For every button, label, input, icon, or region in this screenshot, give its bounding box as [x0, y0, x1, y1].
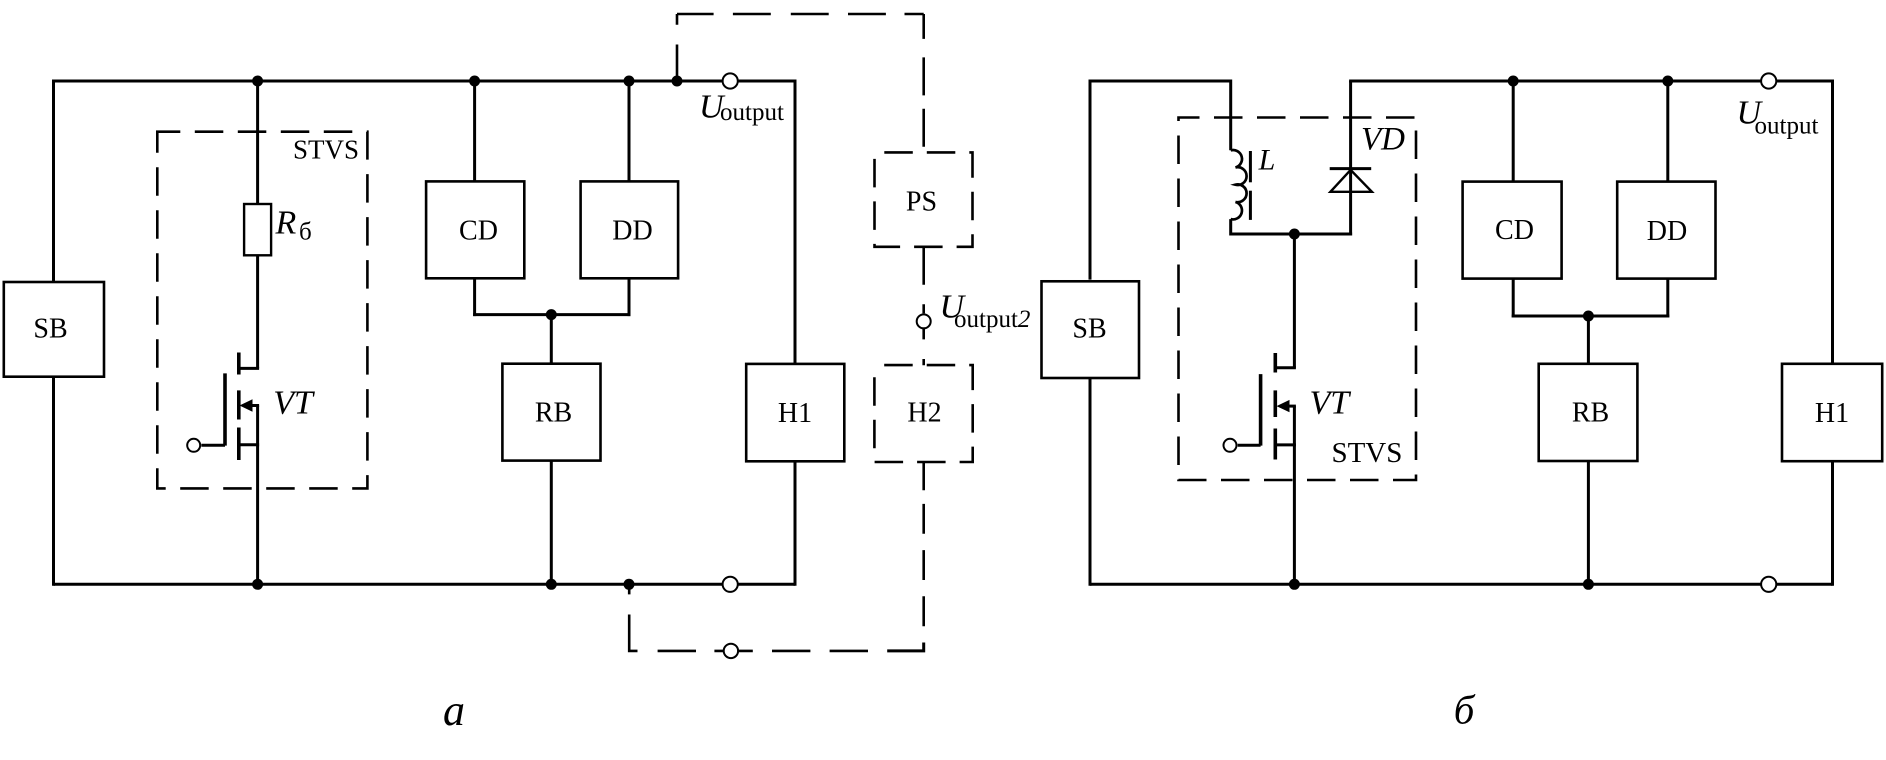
node bottom rail / VT source (right) — [1289, 579, 1300, 590]
wire bottom rail left circuit (left part) — [54, 583, 723, 586]
dashed wire terminal to H2 — [922, 327, 925, 365]
box CD (left) — [426, 181, 524, 278]
svg-text:DD: DD — [1647, 216, 1687, 247]
wire left rail upper — [52, 80, 55, 283]
diode VD triangle — [1330, 170, 1372, 192]
transistor VT (right) gate bar — [1259, 374, 1263, 446]
label DD (left) — [612, 216, 652, 247]
box CD (right) — [1463, 182, 1562, 279]
wire top rail corner down to H1 (right) — [1831, 80, 1834, 364]
transistor VT (left) body arrow head — [240, 399, 253, 411]
dashed wire H2 down to corner — [922, 461, 925, 641]
wire gate circle to gate bar (right) — [1238, 444, 1261, 447]
terminal -Uoutput (left circuit) — [723, 577, 738, 592]
wire merge to RB (right) — [1587, 316, 1590, 363]
svg-text:H1: H1 — [778, 398, 812, 429]
label VD — [1361, 122, 1405, 158]
svg-text:DD: DD — [612, 216, 652, 247]
label DD (right) — [1647, 216, 1687, 247]
wire RB to bottom rail (right) — [1587, 461, 1590, 584]
box RB (left) — [502, 364, 600, 461]
wire bottom rail right circuit (right part) — [1776, 583, 1832, 586]
label RB (left) — [535, 398, 572, 429]
svg-text:CD: CD — [459, 215, 498, 246]
node bottom rail / VT source — [252, 579, 263, 590]
wire node to diode bottom — [1294, 233, 1352, 236]
transistor VT (right) body arrow line — [1285, 405, 1296, 408]
wire CD-DD merge horizontal (left) — [473, 313, 630, 316]
label SB (right) — [1072, 314, 1106, 345]
box H1 (left) — [746, 364, 844, 461]
wire bottom rail left circuit (right part) — [738, 583, 795, 586]
box SB (right) — [1042, 281, 1140, 378]
node top rail / CD branch — [469, 76, 480, 87]
wire CD bottom (right) — [1512, 279, 1515, 318]
svg-text:VT: VT — [1310, 385, 1352, 422]
box DD (right) — [1617, 182, 1715, 279]
svg-text:б: б — [1454, 687, 1476, 733]
node top rail / DD branch (right) — [1662, 76, 1673, 87]
svg-text:a: a — [443, 686, 465, 735]
box SB (left) — [4, 282, 104, 377]
transistor VT (right) channel segments — [1274, 353, 1278, 460]
svg-text:VT: VT — [273, 384, 315, 421]
inductor core bars — [1249, 151, 1252, 220]
svg-text:STVS: STVS — [1331, 437, 1402, 469]
terminal Uoutput2 — [917, 314, 931, 328]
svg-text:SB: SB — [1072, 314, 1106, 345]
inductor L coil — [1231, 150, 1247, 219]
transistor VT (right) body arrow head — [1277, 400, 1290, 412]
label Uoutput (left circuit) — [699, 89, 784, 127]
transistor VT (right) drain connection — [1274, 366, 1296, 369]
terminal on dashed return wire — [724, 644, 738, 658]
node bottom rail / dashed loop — [624, 579, 635, 590]
wire node to VT drain — [1293, 234, 1296, 368]
dashed wire loop bottom-right corner — [887, 643, 924, 651]
terminal -Uoutput (right circuit) — [1761, 577, 1776, 592]
terminal +Uoutput (left circuit) — [723, 73, 738, 88]
node CD-DD merge (right) — [1583, 311, 1594, 322]
wire H1 to bottom rail (right) — [1831, 461, 1834, 586]
dashed wire bottom horizontal to bottom rail node — [629, 584, 723, 651]
gate terminal circle (left VT) — [187, 439, 200, 452]
wire top rail to CD (left) — [473, 81, 476, 181]
svg-text:VD: VD — [1361, 122, 1405, 158]
dashed box PS — [875, 152, 973, 246]
wire top rail right circuit: terminal to H1 corner — [1776, 80, 1832, 83]
wire DD bottom (right) — [1666, 279, 1669, 318]
wire diode VD vertical (through symbol) — [1349, 81, 1352, 236]
dashed wire PS to terminal Uoutput2 — [922, 247, 925, 314]
wire H1 to bottom rail (left) — [794, 461, 797, 586]
wire CD-DD merge horizontal (right) — [1512, 315, 1670, 318]
label SB (left) — [33, 313, 67, 344]
label PS — [906, 187, 937, 218]
label Rb — [275, 205, 312, 246]
wire inductor bottom to node — [1231, 219, 1295, 234]
dashed wire loop: down to PS — [922, 14, 925, 152]
label H1 (left) — [778, 398, 812, 429]
node top rail / dashed loop — [672, 76, 683, 87]
wire DD bottom (left) — [628, 279, 631, 317]
wire VT source to bottom rail (right) — [1293, 406, 1296, 584]
terminal +Uoutput (right circuit) — [1761, 73, 1776, 88]
svg-text:PS: PS — [906, 187, 937, 218]
node top rail / VT branch — [252, 76, 263, 87]
label L — [1258, 144, 1276, 177]
label STVS (left) — [293, 135, 359, 165]
label CD (right) — [1495, 215, 1534, 246]
wire top rail left circuit (left part) — [54, 80, 723, 83]
svg-text:STVS: STVS — [293, 135, 359, 165]
wire SB bottom (right) — [1089, 378, 1092, 586]
wire CD bottom (left) — [473, 279, 476, 317]
transistor VT (left) drain connection — [237, 367, 259, 370]
gate terminal circle (right VT) — [1224, 439, 1237, 452]
wire top rail to DD (right) — [1666, 81, 1669, 181]
svg-text:RB: RB — [1572, 398, 1609, 429]
transistor VT (left) body arrow line — [248, 404, 259, 407]
label H2 — [907, 398, 941, 429]
wire resistor to VT drain — [256, 255, 259, 368]
label VT (left) — [273, 384, 315, 421]
box H1 (right) — [1782, 364, 1882, 461]
wire top rail left circuit (right of terminal) — [738, 80, 795, 83]
svg-text:H2: H2 — [907, 398, 941, 429]
wire from top rail to resistor Rb — [256, 81, 259, 204]
wire left rail lower — [52, 377, 55, 586]
wire gate circle to gate bar (left) — [201, 444, 225, 447]
label b (caption right circuit) — [1454, 687, 1476, 733]
dashed box STVS (left) — [157, 132, 367, 489]
transistor VT (left) gate bar — [223, 373, 227, 445]
wire merge to RB (left) — [550, 315, 553, 363]
svg-text:RB: RB — [535, 398, 572, 429]
wire VT source down to bottom rail — [256, 406, 259, 585]
diode VD cathode bar — [1330, 167, 1372, 170]
label CD (left) — [459, 215, 498, 246]
node L/VD/VT junction — [1289, 229, 1300, 240]
svg-text:L: L — [1258, 144, 1276, 177]
node CD-DD merge (left) — [546, 309, 557, 320]
label RB (right) — [1572, 398, 1609, 429]
wire bottom rail right circuit (left part) — [1090, 583, 1761, 586]
node bottom rail / RB (right) — [1583, 579, 1594, 590]
label STVS (right) — [1331, 437, 1402, 469]
dashed wire loop: top horizontal — [677, 13, 924, 16]
transistor VT (left) channel segments — [237, 353, 241, 461]
wire SB top (right) — [1089, 80, 1092, 280]
dashed box H2 — [874, 365, 972, 462]
label VT (right) — [1310, 385, 1352, 422]
label a (caption left circuit) — [443, 686, 465, 735]
label H1 (right) — [1815, 398, 1849, 429]
node top rail / DD branch — [624, 76, 635, 87]
box DD (left) — [581, 181, 679, 278]
resistor Rb — [244, 204, 271, 255]
svg-text:SB: SB — [33, 313, 67, 344]
label Uoutput (right circuit) — [1737, 95, 1819, 140]
transistor VT (right) source connection — [1274, 443, 1296, 446]
dashed box STVS (right) — [1179, 118, 1417, 481]
wire top rail right circuit: SB to inductor corner — [1090, 81, 1231, 150]
wire top rail to CD (right) — [1512, 81, 1515, 181]
node bottom rail / RB — [546, 579, 557, 590]
box RB (right) — [1539, 364, 1638, 461]
wire top rail to DD (left) — [628, 81, 631, 181]
wire top rail right circuit: diode to H1 corner (left of terminal) — [1349, 80, 1761, 83]
dashed wire loop: up from top rail to corner — [676, 14, 679, 76]
label Uoutput2 — [940, 289, 1031, 334]
node top rail / CD branch (right) — [1508, 76, 1519, 87]
wire RB to bottom rail (left) — [550, 461, 553, 584]
wire top rail corner down to H1 (left) — [794, 80, 797, 364]
dashed wire bottom horizontal (right of terminal) — [739, 650, 868, 653]
svg-text:CD: CD — [1495, 215, 1534, 246]
transistor VT (left) source connection — [237, 443, 259, 446]
svg-text:H1: H1 — [1815, 398, 1849, 429]
